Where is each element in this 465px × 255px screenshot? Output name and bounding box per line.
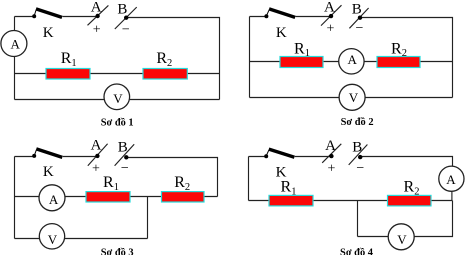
svg-text:Sơ đồ 4: Sơ đồ 4 [340,247,373,255]
svg-text:Sơ đồ 2: Sơ đồ 2 [341,117,374,128]
svg-text:K: K [276,25,287,41]
svg-text:+: + [93,23,101,38]
svg-text:A: A [324,0,335,15]
svg-text:A: A [325,138,336,154]
svg-text:K: K [43,164,54,180]
svg-text:A: A [11,36,21,51]
svg-text:+: + [326,21,334,36]
svg-text:V: V [397,232,407,247]
svg-text:A: A [446,172,456,187]
svg-text:−: − [121,161,129,176]
svg-text:−: − [355,21,363,36]
svg-text:A: A [91,0,102,15]
svg-text:A: A [348,52,358,67]
svg-text:−: − [122,23,130,38]
svg-text:B: B [117,1,127,17]
svg-text:B: B [118,140,128,156]
svg-text:Sơ đồ 1: Sơ đồ 1 [101,117,134,128]
svg-text:A: A [91,137,102,153]
svg-text:B: B [352,140,362,156]
svg-text:V: V [48,232,58,247]
svg-text:K: K [43,25,54,41]
svg-text:Sơ đồ 3: Sơ đồ 3 [101,247,134,255]
svg-text:V: V [349,90,359,105]
svg-text:+: + [327,161,335,176]
svg-text:V: V [113,91,123,106]
svg-text:−: − [356,161,364,176]
svg-text:A: A [49,192,59,207]
svg-text:B: B [352,1,362,17]
svg-text:+: + [92,161,100,176]
